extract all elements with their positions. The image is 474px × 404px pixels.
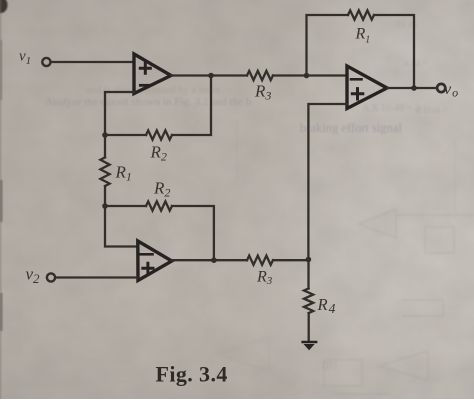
svg-text:and is then processed by a sna: and is then processed by a snare [86,85,221,96]
svg-text:a na =: a na = [404,58,429,69]
wire A3 non-inverting stub down to R3/R4 node [308,104,347,260]
terminal v1 [42,58,50,66]
wire left rail upper [104,135,106,157]
faint bleed-through text from reverse page [45,19,449,371]
wire A1 output [171,74,247,76]
wire riser to feedback loop [307,15,349,76]
node j2 [102,203,108,209]
resistor R2 (bottom) [146,201,172,210]
svg-text:A X 16-48 = 3: A X 16-48 = 3 [362,103,420,114]
node j7 [306,257,312,263]
wire R2 bottom right segment and drop to A2 output [172,206,214,260]
wire R4 to ground [308,313,310,341]
wire R2 top right segment and riser to A1 output [172,76,211,136]
scan artifacts: dark corner blotch and left edge [0,0,8,399]
resistor R4 (to ground) [304,289,313,314]
wire A3 output [387,87,437,89]
node j6 [211,257,217,263]
wire left rail lower [104,186,106,206]
terminal vo [437,84,445,92]
wire R3 bottom to node [273,259,308,261]
node j5 [411,85,417,91]
resistor R3 (top) [247,71,273,80]
op-amp A2 [138,241,172,281]
faint bleed-through circuit shapes [217,120,474,394]
node j3 [208,73,214,79]
svg-text:Analyze the circuit shown in F: Analyze the circuit shown in Fig. 3.2 an… [45,96,252,108]
wire rail to A2 inverting input [105,206,138,247]
wire v2 lead to A2 non-inverting input [55,276,138,278]
wire A1 inverting input to left rail [105,92,134,135]
wire R2 bottom left segment [105,205,146,207]
resistor R2 (top) [146,130,172,139]
wire R2 top left segment [105,134,146,136]
wire feedback loop right side down to output [374,15,414,88]
svg-text:d bras =: d bras = [416,105,449,116]
resistor R3 (bottom) [247,256,273,265]
op-amp A3 [347,66,387,109]
ground [303,342,317,350]
resistor R1 [100,157,109,186]
svg-text:Fig. 3.4: Fig. 3.4 [156,362,228,387]
wire A2 output [172,259,247,261]
resistor R4 (top feedback) [348,10,374,19]
node j4 [304,73,310,79]
op-amp A1 [134,54,171,94]
node j1 [102,132,108,138]
wire R3 top to A3 inverting input [273,74,347,76]
wire node to R4 [307,260,309,289]
wire v1 lead [51,61,134,63]
svg-text:braking effort signal: braking effort signal [300,121,402,135]
terminal v2 [47,273,55,281]
